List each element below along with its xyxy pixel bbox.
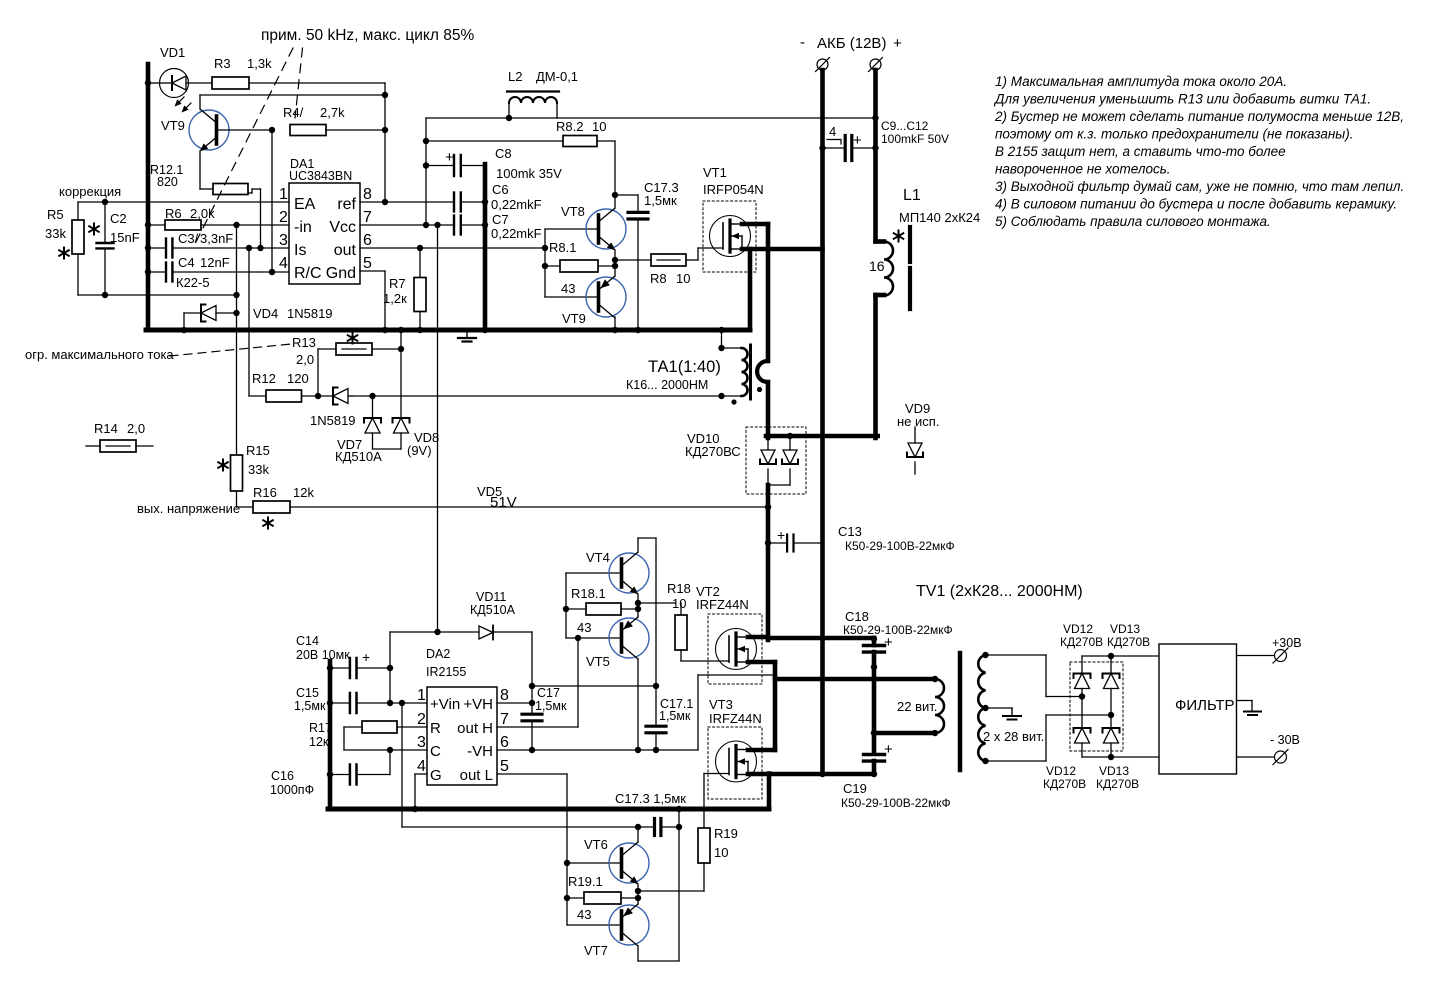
svg-text:43: 43 (577, 907, 591, 922)
svg-text:4) В силовом питании до бустер: 4) В силовом питании до бустера и после … (995, 197, 1397, 212)
svg-text:C13: C13 (838, 524, 862, 539)
svg-text:VD13: VD13 (1099, 764, 1129, 778)
svg-text:(9V): (9V) (407, 443, 432, 458)
svg-text:1000пФ: 1000пФ (270, 783, 314, 797)
svg-text:12к: 12к (309, 735, 329, 749)
svg-text:C3/: C3/ (178, 231, 199, 246)
svg-text:VT9: VT9 (161, 118, 185, 133)
svg-text:C16: C16 (271, 769, 294, 783)
svg-text:R15: R15 (246, 443, 270, 458)
svg-text:-in: -in (294, 219, 312, 236)
svg-text:R17: R17 (309, 721, 332, 735)
svg-text:4: 4 (829, 124, 836, 139)
svg-text:навороченное не хотелось.: навороченное не хотелось. (995, 162, 1171, 177)
svg-text:R/C: R/C (294, 265, 322, 282)
svg-text:C7: C7 (492, 212, 509, 227)
svg-text:UC3843BN: UC3843BN (289, 169, 352, 183)
svg-text:R13: R13 (292, 335, 316, 350)
svg-text:VD11: VD11 (476, 590, 506, 604)
svg-text:Gnd: Gnd (326, 265, 356, 282)
svg-text:R18: R18 (667, 581, 691, 596)
svg-text:IRFP054N: IRFP054N (703, 182, 764, 197)
svg-text:+Vin: +Vin (430, 696, 460, 713)
svg-text:R5: R5 (47, 207, 64, 222)
svg-text:коррекция: коррекция (59, 184, 121, 199)
svg-text:R19: R19 (714, 826, 738, 841)
svg-text:C17: C17 (537, 686, 560, 700)
svg-text:out H: out H (457, 720, 493, 737)
svg-text:2,7k: 2,7k (320, 105, 345, 120)
svg-text:8: 8 (500, 687, 509, 704)
svg-text:100mkF 50V: 100mkF 50V (881, 132, 949, 146)
svg-text:10: 10 (592, 119, 606, 134)
svg-text:КД510А: КД510А (335, 449, 382, 464)
svg-text:2) Бустер не может сделать пит: 2) Бустер не может сделать питание полум… (994, 109, 1404, 124)
svg-text:VT7: VT7 (584, 943, 608, 958)
svg-text:+: + (777, 527, 785, 543)
svg-text:C15: C15 (296, 686, 319, 700)
svg-text:VD12: VD12 (1063, 622, 1093, 636)
svg-text:0,22mkF: 0,22mkF (491, 226, 542, 241)
svg-text:К22-5: К22-5 (176, 275, 210, 290)
svg-text:IRFZ44N: IRFZ44N (696, 597, 749, 612)
svg-text:20В 10мк: 20В 10мк (296, 648, 350, 662)
svg-text:VD4: VD4 (253, 306, 278, 321)
svg-text:R16: R16 (253, 485, 277, 500)
svg-text:2 х 28 вит.: 2 х 28 вит. (983, 729, 1044, 744)
svg-text:0,22mkF: 0,22mkF (491, 197, 542, 212)
svg-text:5: 5 (363, 255, 372, 272)
svg-text:- 30В: - 30В (1270, 733, 1300, 747)
svg-text:R4/: R4/ (283, 105, 304, 120)
svg-text:7: 7 (363, 209, 372, 226)
svg-text:IR2155: IR2155 (426, 665, 466, 679)
svg-text:VT6: VT6 (584, 837, 608, 852)
svg-text:5) Соблюдать правила силового: 5) Соблюдать правила силового монтажа. (995, 214, 1271, 229)
svg-text:R7: R7 (389, 276, 406, 291)
svg-text:VT9: VT9 (562, 311, 586, 326)
svg-text:ref: ref (337, 196, 356, 213)
svg-text:43: 43 (577, 620, 591, 635)
svg-text:3: 3 (417, 734, 426, 751)
svg-text:C17.3 1,5мк: C17.3 1,5мк (615, 791, 686, 806)
svg-text:+: + (362, 649, 370, 665)
svg-text:5: 5 (500, 758, 509, 775)
svg-text:2: 2 (279, 209, 288, 226)
svg-text:C18: C18 (845, 609, 869, 624)
svg-text:2,0: 2,0 (296, 352, 314, 367)
svg-text:16: 16 (869, 258, 885, 274)
svg-text:12k: 12k (293, 485, 314, 500)
svg-text:33k: 33k (45, 226, 66, 241)
svg-text:R8: R8 (650, 271, 667, 286)
svg-text:+VH: +VH (463, 696, 493, 713)
svg-text:АКБ (12В): АКБ (12В) (817, 35, 886, 52)
svg-text:G: G (430, 767, 442, 784)
svg-text:R3: R3 (214, 56, 231, 71)
svg-text:+: + (853, 132, 862, 149)
svg-text:1) Максимальная амплитуда тока: 1) Максимальная амплитуда тока около 20А… (995, 74, 1287, 89)
svg-text:out L: out L (460, 767, 493, 784)
svg-text:R6: R6 (165, 206, 182, 221)
svg-text:100mk 35V: 100mk 35V (496, 166, 562, 181)
svg-text:+: + (884, 741, 893, 758)
svg-text:R14: R14 (94, 421, 118, 436)
svg-text:КД510А: КД510А (470, 603, 516, 617)
svg-text:1N5819: 1N5819 (310, 413, 356, 428)
svg-text:VT3: VT3 (709, 697, 733, 712)
svg-text:C14: C14 (296, 634, 319, 648)
svg-text:VD12: VD12 (1046, 764, 1076, 778)
svg-text:VD1: VD1 (160, 45, 185, 60)
svg-text:-VH: -VH (467, 743, 493, 760)
svg-text:1,5мк: 1,5мк (294, 699, 326, 713)
svg-text:VT5: VT5 (586, 654, 610, 669)
svg-text:В 2155 защит нет, а ставить чт: В 2155 защит нет, а ставить что-то более (995, 144, 1286, 159)
svg-text:К50-29-100В-22мкФ: К50-29-100В-22мкФ (845, 539, 955, 553)
svg-text:4: 4 (417, 758, 426, 775)
svg-text:C4: C4 (178, 255, 195, 270)
svg-text:6: 6 (363, 232, 372, 249)
svg-text:22 вит.: 22 вит. (897, 699, 937, 714)
svg-text:вых. напряжение: вых. напряжение (137, 501, 240, 516)
svg-text:10: 10 (676, 271, 690, 286)
svg-text:+: + (445, 149, 454, 166)
svg-text:прим. 50 kHz, макс. цикл 85%: прим. 50 kHz, макс. цикл 85% (261, 27, 474, 44)
svg-text:out: out (334, 242, 357, 259)
svg-text:1,5мк: 1,5мк (644, 193, 677, 208)
svg-text:C6: C6 (492, 182, 509, 197)
svg-text:ФИЛЬТР: ФИЛЬТР (1175, 697, 1235, 714)
svg-text:ДМ-0,1: ДМ-0,1 (536, 69, 578, 84)
svg-text:10: 10 (714, 845, 728, 860)
svg-text:33k: 33k (248, 462, 269, 477)
svg-text:VT4: VT4 (586, 550, 610, 565)
svg-text:3,3nF: 3,3nF (200, 231, 233, 246)
svg-text:Vcc: Vcc (329, 219, 356, 236)
svg-text:4: 4 (279, 255, 288, 272)
svg-text:МП140 2хК24: МП140 2хК24 (899, 210, 980, 225)
svg-text:3) Выходной фильтр думай сам,: 3) Выходной фильтр думай сам, уже не пом… (995, 179, 1404, 194)
svg-text:15nF: 15nF (110, 230, 140, 245)
svg-text:Is: Is (294, 242, 306, 259)
svg-text:1,3k: 1,3k (247, 56, 272, 71)
svg-text:КД270В: КД270В (1043, 777, 1086, 791)
svg-text:1,5мк: 1,5мк (535, 699, 567, 713)
svg-text:VD13: VD13 (1110, 622, 1140, 636)
svg-text:R18.1: R18.1 (571, 586, 606, 601)
svg-text:КД270В: КД270В (1107, 635, 1150, 649)
svg-text:VT8: VT8 (561, 204, 585, 219)
svg-text:2: 2 (417, 711, 426, 728)
svg-text:TV1 (2хК28... 2000НМ): TV1 (2хК28... 2000НМ) (916, 583, 1083, 600)
svg-text:IRFZ44N: IRFZ44N (709, 711, 762, 726)
svg-text:820: 820 (157, 175, 178, 189)
svg-text:R: R (430, 720, 441, 737)
svg-text:R8.1: R8.1 (549, 240, 576, 255)
svg-text:8: 8 (363, 186, 372, 203)
svg-text:КД270ВС: КД270ВС (685, 444, 741, 459)
svg-text:L2: L2 (508, 69, 522, 84)
svg-text:К50-29-100В-22мкФ: К50-29-100В-22мкФ (841, 796, 951, 810)
svg-text:1N5819: 1N5819 (287, 306, 333, 321)
svg-text:C8: C8 (495, 146, 512, 161)
svg-text:C2: C2 (110, 211, 127, 226)
svg-text:7: 7 (500, 711, 509, 728)
svg-text:1,2к: 1,2к (383, 291, 407, 306)
svg-text:огр. максимального тока: огр. максимального тока (25, 347, 174, 362)
svg-text:2,0: 2,0 (127, 421, 145, 436)
svg-text:поэтому от к.з. только предохр: поэтому от к.з. только предохранители (н… (995, 127, 1353, 142)
svg-text:R12: R12 (252, 371, 276, 386)
svg-text:КД270В: КД270В (1060, 635, 1103, 649)
svg-text:КД270В: КД270В (1096, 777, 1139, 791)
svg-text:+30В: +30В (1272, 636, 1302, 650)
svg-text:C19: C19 (843, 781, 867, 796)
svg-text:12nF: 12nF (200, 255, 230, 270)
svg-text:C: C (430, 743, 441, 760)
svg-text:К16... 2000НМ: К16... 2000НМ (626, 378, 708, 392)
svg-text:6: 6 (500, 734, 509, 751)
svg-text:не исп.: не исп. (897, 414, 939, 429)
svg-text:51V: 51V (490, 494, 517, 511)
svg-text:ТА1(1:40): ТА1(1:40) (648, 358, 721, 376)
svg-text:Для увеличения уменьшить R13 и: Для увеличения уменьшить R13 или добавит… (993, 92, 1371, 107)
svg-text:2,0k: 2,0k (190, 206, 215, 221)
svg-text:К50-29-100В-22мкФ: К50-29-100В-22мкФ (843, 623, 953, 637)
svg-text:DA2: DA2 (426, 647, 450, 661)
svg-text:43: 43 (561, 281, 575, 296)
svg-text:C9...C12: C9...C12 (881, 119, 929, 133)
svg-text:R19.1: R19.1 (568, 874, 603, 889)
svg-text:10: 10 (672, 596, 686, 611)
svg-text:1,5мк: 1,5мк (659, 709, 691, 723)
svg-text:1: 1 (279, 186, 288, 203)
svg-text:R8.2: R8.2 (556, 119, 583, 134)
svg-text:-: - (800, 34, 805, 51)
svg-text:120: 120 (287, 371, 309, 386)
svg-text:EA: EA (294, 196, 316, 213)
svg-text:+: + (893, 35, 902, 52)
svg-text:VT1: VT1 (703, 165, 727, 180)
svg-text:3: 3 (279, 232, 288, 249)
svg-text:1: 1 (417, 687, 426, 704)
svg-text:L1: L1 (903, 187, 921, 204)
